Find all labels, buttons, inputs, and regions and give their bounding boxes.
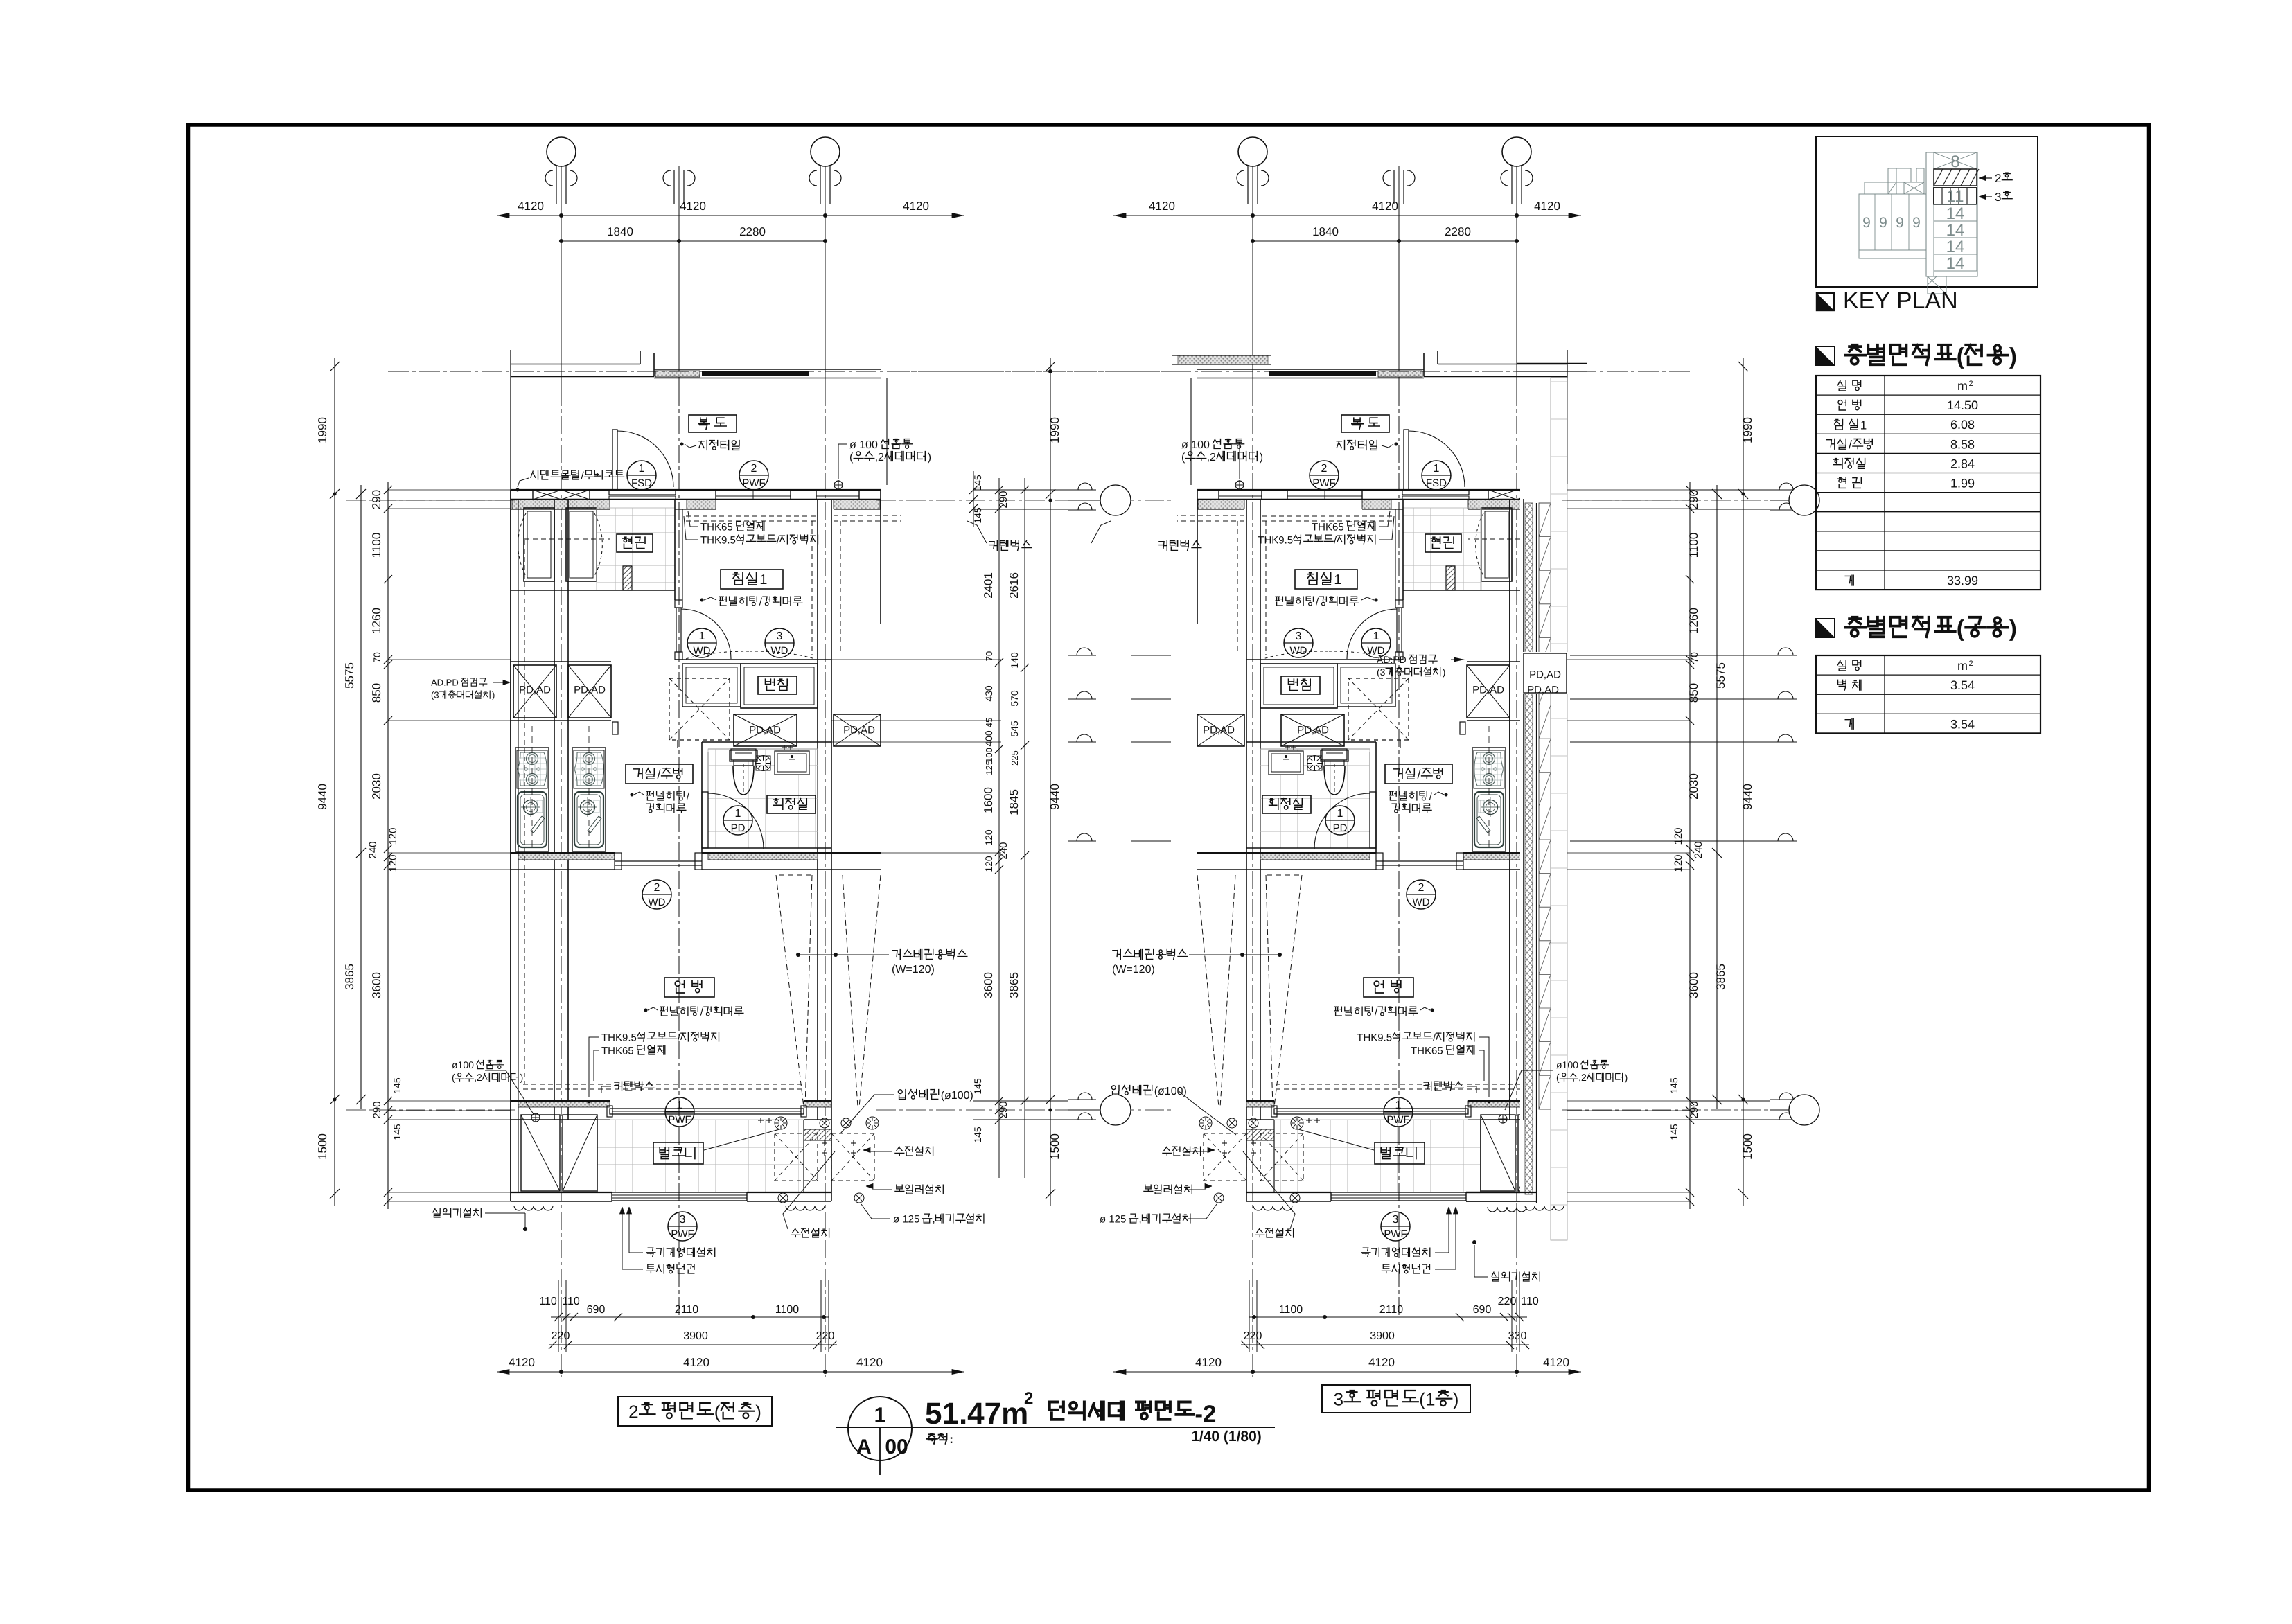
svg-text:2: 2	[1024, 1389, 1033, 1408]
opposite corridor wall lines	[1438, 364, 1567, 365]
entry closet (neighbor)	[1524, 508, 1554, 581]
label 투시형난간	[1382, 1264, 1391, 1273]
svg-text:3600: 3600	[370, 972, 383, 998]
svg-text:2: 2	[1418, 882, 1425, 894]
bedroom west wall	[674, 499, 676, 600]
bedroom door swing	[1347, 609, 1397, 659]
svg-text:2280: 2280	[739, 225, 766, 238]
svg-text:1: 1	[874, 1404, 886, 1427]
svg-text:3600: 3600	[1687, 972, 1700, 998]
room label box 복도	[689, 415, 737, 432]
svg-text:2: 2	[1968, 380, 1973, 388]
svg-text:3900: 3900	[1370, 1330, 1395, 1342]
svg-text:(W=120): (W=120)	[892, 964, 935, 976]
party wall west faces	[554, 499, 555, 1120]
svg-text:4120: 4120	[1368, 1356, 1395, 1369]
end wall brick ladder	[1539, 503, 1551, 1109]
south wall hatch	[1468, 1101, 1560, 1107]
svg-text:9440: 9440	[1048, 784, 1061, 810]
corridor window PWF louver	[1287, 490, 1362, 500]
east context edge	[1197, 490, 1198, 624]
entry door sill	[609, 490, 676, 495]
label 보일러설치	[1144, 1185, 1153, 1191]
row break symbol	[1068, 840, 1096, 842]
svg-text:): )	[2009, 615, 2017, 641]
svg-text:220: 220	[1244, 1330, 1262, 1342]
label 판넬히팅/강화마루 (main room)	[1431, 1009, 1434, 1012]
corridor window PWF louver	[716, 490, 791, 500]
svg-text:(: (	[849, 452, 854, 464]
balcony window PWF3	[612, 1192, 747, 1201]
svg-text:145: 145	[391, 1077, 403, 1094]
area table frame	[1816, 376, 2040, 590]
svg-text:4120: 4120	[683, 1356, 709, 1369]
PD.AD shafts at party wall	[1522, 665, 1564, 718]
tag 1/FSD	[627, 461, 656, 490]
svg-text:1100: 1100	[1279, 1304, 1303, 1316]
living/main wall north line	[511, 852, 615, 854]
svg-text:3865: 3865	[343, 964, 356, 990]
row grid symbol with bubble	[1068, 489, 1096, 491]
svg-text:51.47m: 51.47m	[925, 1397, 1028, 1431]
svg-text:70: 70	[1689, 652, 1700, 663]
washer box dashed 1	[775, 1133, 818, 1181]
svg-text:430: 430	[983, 685, 994, 702]
north wall insulation hatch	[1468, 500, 1566, 509]
svg-text:,2: ,2	[1578, 1072, 1587, 1083]
PD.AD shaft neighbor east	[1197, 714, 1244, 746]
svg-text:140: 140	[1009, 652, 1020, 669]
wavy break marks	[514, 1206, 553, 1210]
bathroom west wall	[701, 742, 703, 853]
svg-text:1: 1	[699, 630, 705, 642]
svg-text:/: /	[658, 768, 661, 782]
svg-text:ø 100: ø 100	[849, 439, 878, 451]
kitchen sink (unit)	[1474, 792, 1504, 847]
svg-text:3865: 3865	[1007, 972, 1021, 998]
rain pipe symbol	[834, 481, 843, 489]
gas pipe box dashed V neighbor	[1197, 875, 1219, 1107]
tag 2/PWF	[739, 461, 768, 490]
tag 1/FSD	[1422, 461, 1451, 490]
east context edge	[880, 490, 881, 624]
room label box 발코니	[1375, 1142, 1425, 1164]
room label box 화장실	[767, 795, 816, 813]
wash basin	[775, 751, 809, 775]
svg-text:3865: 3865	[1714, 964, 1727, 990]
balcony window PWF3	[1331, 1192, 1466, 1201]
svg-text:120: 120	[387, 827, 399, 845]
grid break symbol A	[1525, 170, 1533, 186]
svg-text:PWF: PWF	[1386, 1114, 1409, 1126]
kitchen sink (neighbor)	[1531, 792, 1560, 847]
mid col B	[1024, 478, 1025, 1178]
svg-text:): )	[492, 690, 495, 700]
svg-text:3: 3	[777, 630, 783, 642]
label 판넬히팅/강화마루 (living)	[631, 793, 634, 797]
svg-text:3.54: 3.54	[1950, 717, 1975, 731]
mid col 145145	[973, 471, 974, 527]
svg-text:14.50: 14.50	[1947, 398, 1978, 412]
left plan right-side row stubs	[831, 659, 1001, 660]
svg-text:4120: 4120	[1372, 200, 1398, 213]
svg-text:): )	[755, 1401, 761, 1422]
WD2 door sill	[1376, 860, 1463, 862]
svg-text:570: 570	[1009, 690, 1020, 707]
svg-text:120: 120	[1673, 827, 1684, 845]
room label box 침실 1	[721, 570, 783, 589]
basin faucet crosses	[782, 747, 787, 748]
second window louver	[816, 490, 859, 500]
svg-text:): )	[928, 452, 931, 464]
label 수전설치 (bottom)	[791, 1228, 800, 1237]
tag 1/PWF	[1384, 1097, 1413, 1127]
north wall outer face	[511, 489, 881, 491]
svg-text:A: A	[856, 1436, 872, 1458]
svg-text:): )	[1625, 1072, 1628, 1083]
closet sliding door dashed arcs	[686, 651, 815, 659]
svg-text:PD,AD: PD,AD	[1527, 684, 1559, 696]
svg-text:PD,AD: PD,AD	[1529, 669, 1561, 680]
svg-text:(: (	[1957, 343, 1964, 369]
tag 2/WD	[642, 880, 671, 909]
svg-text:220: 220	[552, 1330, 570, 1342]
living/main wall hatch	[1463, 854, 1560, 860]
grid bubble	[1100, 485, 1131, 515]
svg-text:KEY PLAN: KEY PLAN	[1843, 288, 1958, 314]
shaft top wall line	[511, 661, 611, 662]
svg-text:1600: 1600	[982, 787, 995, 813]
svg-text:4120: 4120	[1195, 1356, 1222, 1369]
toilet tank	[730, 750, 757, 761]
kitchen counter strip (neighbor)	[515, 748, 549, 851]
room label box 현관	[1425, 534, 1461, 552]
bedroom door swing	[681, 609, 731, 659]
key plan cell 2호 hatched	[1934, 169, 1977, 186]
svg-text:1: 1	[1434, 463, 1440, 475]
svg-text:1840: 1840	[1312, 225, 1339, 238]
svg-text:,: ,	[933, 1213, 935, 1225]
svg-text:-2: -2	[1195, 1401, 1216, 1428]
opposite corridor wall lines	[511, 364, 640, 365]
label 판넬히팅/강화마루 (bedroom)	[1375, 599, 1378, 602]
svg-text:3: 3	[680, 1214, 686, 1226]
tag 2/PWF	[1310, 461, 1339, 490]
grid bubble A	[1502, 137, 1531, 166]
svg-text:120: 120	[983, 829, 994, 846]
washer box dashed 2	[831, 1133, 874, 1181]
svg-text:THK65: THK65	[601, 1045, 634, 1057]
tag 1/PD	[1325, 806, 1355, 835]
svg-text:): )	[520, 1072, 524, 1083]
bottom dim extension lines	[1519, 1280, 1520, 1352]
shaft top wall line	[1467, 661, 1567, 662]
balcony south wall redraw right	[1466, 1192, 1537, 1193]
south wall lines	[1468, 1100, 1567, 1102]
svg-text:THK65: THK65	[700, 521, 733, 533]
entry tile grid	[1403, 508, 1481, 590]
stub lines to plan	[1567, 489, 1690, 491]
south wall lines	[511, 1100, 610, 1102]
svg-text:AD.PD: AD.PD	[431, 678, 459, 688]
north wall inner line	[511, 499, 881, 500]
svg-text:145: 145	[972, 507, 983, 524]
curtain box dashed	[523, 1084, 804, 1085]
svg-text:290: 290	[1687, 490, 1700, 509]
faucet plus marks	[1314, 1120, 1320, 1121]
svg-text:9: 9	[1896, 215, 1904, 231]
bottom dim extension lines	[558, 1280, 559, 1352]
svg-text:3900: 3900	[683, 1330, 708, 1342]
svg-text:1100: 1100	[370, 533, 383, 558]
north wall inner face line	[511, 509, 610, 510]
svg-text:ø100: ø100	[452, 1059, 474, 1070]
corridor centerline node	[1048, 369, 1052, 373]
corridor centerline	[900, 371, 1690, 372]
grid line C (party wall center right)	[1252, 166, 1253, 388]
balcony drains	[775, 1117, 787, 1129]
svg-text:,2: ,2	[1207, 452, 1216, 464]
top dim line 1840/2280	[561, 240, 825, 242]
closet band 반침	[682, 664, 741, 707]
gas pipe box dashed V	[776, 875, 804, 1107]
svg-text:110: 110	[539, 1296, 557, 1307]
svg-text:2110: 2110	[675, 1304, 699, 1316]
svg-text:1260: 1260	[1687, 608, 1700, 634]
svg-text:3: 3	[1334, 1388, 1343, 1409]
dim stack col2	[360, 485, 362, 1109]
bottom dim row 1	[1249, 1316, 1527, 1318]
main title 단위세대 평면도-2	[1050, 1402, 1064, 1420]
rain pipe symbol	[1235, 481, 1244, 489]
svg-text:3.54: 3.54	[1950, 678, 1975, 692]
toilet bowl	[1322, 749, 1347, 760]
label 지정타일 with leader	[685, 444, 696, 448]
mid cluster connector lines	[973, 489, 1068, 491]
svg-text:THK9.5: THK9.5	[1258, 534, 1293, 546]
svg-text:290: 290	[998, 491, 1010, 508]
AC unit box (unit)	[563, 1115, 597, 1191]
svg-text:2.84: 2.84	[1950, 457, 1975, 470]
svg-text:145: 145	[1668, 1124, 1680, 1140]
svg-text:1840: 1840	[607, 225, 633, 238]
svg-text:240: 240	[367, 841, 379, 858]
entry step line	[1403, 590, 1567, 591]
curtain box dashed	[1274, 1084, 1555, 1085]
key plan left wing	[1859, 194, 1926, 250]
grid break symbol B	[1407, 170, 1415, 186]
room label box 화장실	[1262, 795, 1311, 813]
grid break symbol C	[1261, 170, 1269, 186]
PD.AD shaft in end wall	[1522, 652, 1570, 694]
label 커텐박스 (main)	[1424, 1082, 1431, 1091]
row grid symbol with bubble	[1770, 1099, 1797, 1100]
svg-text:33.99: 33.99	[1947, 574, 1978, 588]
svg-text:4120: 4120	[509, 1356, 535, 1369]
balcony east wall	[1246, 1120, 1247, 1201]
grid bubble C	[811, 137, 840, 166]
living/main wall south line	[1463, 869, 1567, 870]
kitchen counter strip (unit)	[572, 748, 606, 851]
gas stove (neighbor)	[1531, 750, 1561, 788]
kitchen sink (neighbor)	[518, 792, 547, 847]
svg-text:3: 3	[1296, 630, 1302, 642]
room label box 발코니	[653, 1142, 703, 1164]
svg-text:3: 3	[1393, 1214, 1399, 1226]
svg-text:4120: 4120	[1534, 200, 1560, 213]
corridor hatch segment	[1378, 371, 1422, 377]
washer box dashed 2	[1204, 1133, 1246, 1181]
svg-text:14: 14	[1946, 238, 1965, 256]
label 커텐박스 (east ctx)	[1159, 541, 1167, 551]
label 수전설치 (bottom)	[1255, 1228, 1264, 1237]
bathroom door leaf	[1370, 792, 1376, 848]
room label box 안 방	[664, 978, 714, 997]
row grid symbol with bubble	[1068, 1099, 1096, 1100]
balcony inner step	[597, 1120, 598, 1192]
living/main wall hatch	[518, 854, 615, 860]
dim stack col3	[1689, 482, 1691, 1209]
entry closet (unit)	[1481, 508, 1512, 581]
label 지정타일 with leader	[1382, 444, 1393, 448]
svg-text:145: 145	[972, 1127, 983, 1143]
svg-text:1500: 1500	[316, 1133, 329, 1160]
kitchen counter strip (unit)	[1472, 748, 1506, 851]
tag 1/PWF	[665, 1097, 694, 1127]
key plan arrow 2호	[1980, 177, 1992, 179]
toilet tank	[1321, 750, 1348, 761]
living/main wall north line	[1463, 852, 1567, 854]
closet sliding door dashed arcs	[1263, 651, 1392, 659]
svg-text:110: 110	[562, 1296, 580, 1307]
svg-text:): )	[2009, 343, 2017, 369]
svg-text:WD: WD	[1413, 897, 1430, 908]
north wall outer face	[1197, 489, 1567, 491]
svg-text:2110: 2110	[1379, 1304, 1404, 1316]
svg-text:THK65: THK65	[1312, 521, 1344, 533]
svg-text:2: 2	[628, 1401, 638, 1422]
room label box 반침	[758, 676, 797, 694]
gas stove (neighbor)	[517, 750, 547, 788]
svg-text:THK9.5: THK9.5	[700, 534, 736, 546]
svg-text:225: 225	[1010, 750, 1020, 766]
bedroom door jambs	[1395, 600, 1403, 608]
grid line B (1840 split)	[1398, 166, 1400, 388]
svg-text:9: 9	[1879, 215, 1887, 231]
bathroom south wall	[1246, 847, 1376, 849]
top dim line 4120/4120/4120	[497, 215, 964, 216]
svg-text:THK65: THK65	[1411, 1045, 1443, 1057]
svg-text:PWF: PWF	[671, 1228, 694, 1240]
svg-text:2: 2	[1321, 463, 1328, 475]
entry door leaf FSD	[612, 430, 617, 490]
svg-text:1.99: 1.99	[1950, 477, 1975, 491]
row break symbol	[1068, 741, 1096, 743]
svg-text:850: 850	[1687, 683, 1700, 703]
svg-text:145: 145	[972, 1078, 983, 1095]
svg-text:6.08: 6.08	[1950, 418, 1975, 432]
grid bubble A	[547, 137, 576, 166]
svg-text:2280: 2280	[1445, 225, 1471, 238]
svg-text:AD.PD: AD.PD	[1377, 654, 1407, 665]
scale label 축척	[927, 1433, 937, 1444]
bedroom/closet divider	[1246, 659, 1403, 660]
bathroom south wall	[702, 847, 831, 849]
svg-text:ø 125: ø 125	[893, 1213, 919, 1225]
row break symbol	[1068, 698, 1096, 700]
bathroom top wall	[702, 741, 831, 743]
tag 2/WD	[1407, 880, 1436, 909]
svg-text::: :	[949, 1433, 953, 1446]
svg-text:ø 125: ø 125	[1100, 1213, 1126, 1225]
tag 1/PD	[723, 806, 752, 835]
bathroom door swing	[708, 793, 764, 849]
svg-text:PWF: PWF	[1384, 1228, 1407, 1240]
svg-text:1990: 1990	[1741, 417, 1754, 443]
svg-text:145: 145	[1668, 1077, 1680, 1094]
svg-text:1990: 1990	[1048, 417, 1061, 443]
svg-text:PD: PD	[731, 822, 746, 834]
bedroom dashed inset vertical	[1265, 521, 1267, 655]
PD.AD shafts at party wall	[513, 665, 556, 718]
faucet plus marks	[758, 1120, 764, 1121]
north wall inner face line	[1468, 509, 1567, 510]
svg-text:400: 400	[983, 730, 994, 747]
svg-text:220: 220	[816, 1330, 835, 1342]
drawing sheet border frame	[188, 125, 2149, 1490]
PD.AD shaft neighbor east	[834, 714, 881, 746]
svg-text:PD,AD: PD,AD	[749, 724, 781, 736]
north wall inner line	[1197, 499, 1567, 500]
svg-text:1: 1	[759, 572, 767, 588]
gas stove (unit)	[574, 750, 604, 788]
svg-text:1: 1	[677, 1100, 683, 1111]
svg-text:WD: WD	[771, 645, 788, 657]
svg-text:1: 1	[1395, 1100, 1402, 1111]
svg-text:(: (	[1957, 615, 1964, 641]
grid bubble	[1789, 485, 1819, 515]
svg-text:,2: ,2	[875, 452, 884, 464]
bedroom west wall	[1402, 499, 1404, 600]
gas pipe box dashed V neighbor	[859, 875, 881, 1107]
balcony tile floor	[1274, 1120, 1481, 1192]
svg-text:2: 2	[1995, 172, 2001, 185]
bottom dim row 2	[1241, 1344, 1529, 1345]
key plan frame	[1816, 136, 2038, 287]
svg-text:,: ,	[1139, 1213, 1142, 1225]
svg-text:ø 100: ø 100	[1181, 439, 1210, 451]
svg-text:THK9.5: THK9.5	[601, 1032, 637, 1043]
PD.AD shaft box (bath)	[734, 714, 797, 746]
floor drain	[756, 756, 770, 770]
svg-text:PD,AD: PD,AD	[843, 724, 875, 736]
label 실외기설치	[433, 1208, 440, 1217]
plan title box 2호 평면도(전층)	[618, 1397, 772, 1426]
svg-text:9440: 9440	[316, 784, 329, 810]
svg-text:(: (	[714, 1401, 721, 1422]
bathroom west wall	[1375, 742, 1377, 853]
end exterior tile strip	[1551, 378, 1567, 1240]
svg-text:4120: 4120	[1543, 1356, 1569, 1369]
svg-text:1260: 1260	[370, 608, 383, 634]
grid line C (party wall center right)	[825, 166, 826, 388]
svg-text:/: /	[1849, 439, 1852, 452]
dim stack col2	[1716, 485, 1718, 1109]
svg-text:690: 690	[1473, 1304, 1492, 1316]
room label box 안 방	[1364, 978, 1413, 997]
svg-text:WD: WD	[649, 897, 666, 908]
tag 3/WD	[1284, 628, 1313, 657]
